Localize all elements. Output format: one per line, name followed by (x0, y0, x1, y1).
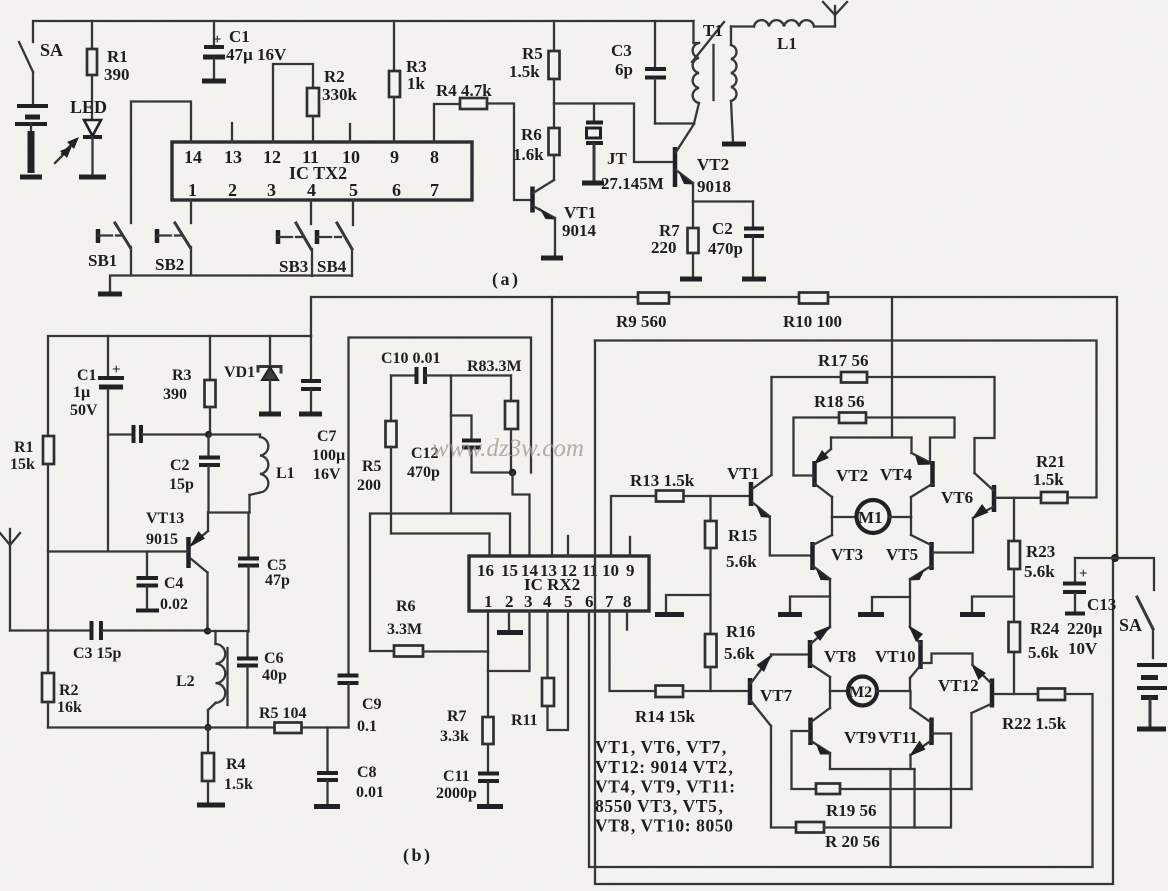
battery GB (b) (1137, 665, 1167, 729)
transistor VT5 (bridge) (886, 517, 932, 627)
resistor R5 200 (357, 376, 397, 534)
wire: R5 bottom to pin 16 (391, 534, 490, 557)
wire: sub rail (b) left (48, 336, 311, 436)
motor M1 (832, 500, 911, 533)
transistor VT2 (bridge) (794, 438, 869, 518)
transistor VT2 9018 (675, 124, 731, 202)
transistor VT9 (bridge) (792, 691, 877, 769)
capacitor coupling (C1 node to tank) (108, 425, 209, 443)
wire: pin 12 stub (567, 536, 569, 556)
wire: motor supply drop (891, 298, 893, 438)
ground: VD1 (259, 412, 281, 417)
resistor R7 220 (651, 202, 699, 278)
resistor R10 100 (783, 293, 842, 332)
resistor R2 16k (42, 631, 82, 728)
transistor VT3 (bridge) (813, 517, 864, 627)
switch SA (a) (19, 40, 63, 105)
resistor R5 1.5k (a) (509, 21, 560, 104)
antenna (a) (823, 2, 847, 27)
pushbutton SB1 (88, 223, 131, 275)
paper noise overlay (0, 0, 1, 1)
wire: VT11 emitter to R20 line (913, 769, 915, 828)
battery GB (a) (15, 106, 48, 173)
wire: emitter tank line (209, 511, 250, 513)
wire: pin 2 ground stub (508, 611, 510, 630)
transistor VT13 9015 (146, 510, 208, 631)
capacitor C10 0.01 (381, 350, 451, 384)
wire: pin 8 stub (626, 611, 628, 630)
capacitor C4 0.02 (136, 552, 188, 614)
wire: pin 6 long line (589, 611, 1093, 867)
ground: pushbutton common (98, 292, 122, 297)
resistor R22 1.5k (1002, 689, 1093, 868)
capacitor C7 100u 16V (301, 336, 345, 483)
inductor L1 (b) (209, 435, 295, 513)
motor M2 (830, 677, 910, 706)
wire: VT2 emitter node line (693, 200, 753, 202)
capacitor C1 47u 16V (a) (203, 21, 287, 78)
resistor R4 1.5k (b) (202, 728, 253, 803)
capacitor C3 6p (611, 21, 666, 124)
wire: pin 1/3 net and R7 top (487, 611, 489, 717)
ground: R7 (680, 277, 702, 282)
wire: pin14 to LED column (131, 102, 191, 224)
text: transistor list (595, 737, 736, 836)
ground: C11 (477, 804, 503, 809)
pushbutton SB3 (278, 200, 312, 276)
node: battery junction (1111, 554, 1119, 562)
wire: collector node to C5/C6 column (208, 630, 249, 632)
resistor R17 56 (772, 351, 995, 473)
resistor R7 3.3k (440, 708, 494, 772)
transistor VT7 (bridge driver) (750, 654, 809, 828)
wire: VT12 base line (994, 693, 1038, 695)
wire: pin 7 to R14 (610, 611, 656, 691)
transistor VT4 (bridge) (880, 438, 933, 518)
ground: VT1 emitter (541, 256, 563, 261)
ground: C1 (a) (202, 79, 226, 84)
ground: crystal (582, 181, 604, 186)
resistor R4 4.7k (434, 81, 531, 200)
wire: C3 bottom to VT2 collector node (655, 122, 694, 124)
wire: net to pin 15 (451, 514, 510, 557)
switch SA (b) (1115, 558, 1154, 658)
resistor R19 56 (792, 731, 972, 820)
IC TX2 (172, 142, 472, 200)
node: tank bottom (204, 724, 211, 731)
capacitor C1 1u 50V (b) (70, 336, 124, 551)
resistor R6 3.3M (370, 598, 488, 657)
antenna (b) (0, 529, 20, 631)
node: tank top (205, 431, 212, 438)
resistor R24 5.6k (1009, 619, 1060, 694)
capacitor C6 40p (237, 631, 287, 728)
inductor L2 (176, 631, 228, 727)
node: VT13 collector (204, 627, 211, 634)
IC RX2 (469, 556, 649, 611)
wire: top supply rail (a) (33, 21, 694, 42)
wire: VT13 base line (48, 550, 188, 552)
transistor VT8 (bridge) (810, 626, 856, 692)
wire: pin13 stub (231, 123, 233, 142)
wire: pin 9 stub (RX2) (629, 537, 631, 556)
transistor VT12 (bridge driver) (922, 654, 992, 790)
resistor R13 1.5k (611, 471, 749, 556)
transistor VT1 (bridge driver) (727, 377, 810, 556)
ground: VT5/VT10 emitters (858, 597, 910, 615)
LED VD (55, 97, 107, 175)
capacitor C12 470p (407, 416, 511, 482)
capacitor C13 220u 10V (1063, 558, 1116, 658)
ground: C7 (299, 412, 322, 417)
pushbutton SB4 (317, 200, 353, 276)
ground: C8 (314, 804, 340, 809)
wire: detector box top (C9 to pin14 net) (350, 338, 531, 473)
ground: battery (a) (20, 175, 42, 180)
transformer T1 (692, 21, 737, 142)
capacitor C3 15p (b) (10, 621, 208, 662)
resistor R18 56 (794, 392, 955, 476)
ground: R15/R16 mid (655, 595, 711, 615)
resistor R20 56 (796, 734, 951, 852)
resistor R14 15k (635, 686, 748, 727)
wire: emitter bus to pin6 line (889, 769, 891, 867)
resistor R3 390 (b) (163, 336, 216, 435)
ground: VT3/VT8 emitters (778, 597, 830, 615)
wire: pushbutton common line (110, 276, 352, 293)
capacitor C2 470p (708, 202, 764, 278)
transistor VT1 9014 (533, 180, 597, 256)
wire: enclosure left/bottom (595, 341, 1113, 885)
resistor R9 560 (616, 293, 669, 332)
resistor R5 104 (259, 705, 349, 733)
resistor R6 1.6k (513, 104, 560, 181)
capacitor C9 0.1 (338, 338, 382, 736)
ground: T1 secondary (722, 142, 746, 147)
wire: R5 bottom junction to VT2 base (554, 104, 674, 163)
ground: R4 (b) (197, 803, 225, 808)
resistor R8 3.3M (451, 358, 522, 473)
wire: node down to pin 14 (513, 473, 530, 557)
inductor L1 (a) (731, 20, 835, 53)
resistor R16 5.6k (705, 622, 755, 691)
wire: pin 11 line to R21 (595, 341, 1097, 496)
wire: C10 right net (to pin15) (370, 376, 451, 652)
capacitor C5 47p (238, 513, 290, 632)
ground: pin 2 (497, 630, 523, 635)
wire: VT6 base line (995, 497, 1041, 499)
wire: rail to pin 13 (551, 297, 553, 556)
resistor R23 5.6k (1009, 498, 1056, 622)
resistor R1 15k (b) (10, 436, 54, 673)
resistor R2 330k (307, 67, 358, 142)
ground: R23/R24 mid (960, 597, 1014, 615)
resistor R21 1.5k (1033, 452, 1097, 503)
resistor R1 390 (87, 21, 130, 118)
pushbutton SB2 (155, 200, 191, 275)
zener diode VD1 (224, 336, 281, 412)
wire: main +V rail (b) (311, 297, 1117, 558)
wire: pin12 bracket to R2 top (273, 64, 313, 142)
capacitor C8 0.01 (317, 728, 384, 805)
resistor R15 5.6k (705, 496, 757, 634)
wire: VT2/VT4 emitter supply line (831, 436, 912, 438)
wire: bottom tank line (48, 726, 275, 728)
wire: pin10 stub (349, 124, 351, 142)
capacitor C2 15p (b) (169, 435, 220, 513)
ground: LED (79, 175, 106, 180)
crystal JT 27.145M (586, 104, 664, 194)
transistor VT11 (bridge) (878, 691, 951, 769)
resistor R3 1k (a) (389, 21, 427, 142)
node: C12/R8/pin14 (509, 469, 517, 477)
transistor VT6 (bridge driver) (933, 473, 994, 553)
capacitor C11 2000p (436, 768, 499, 804)
ground: C2 (742, 277, 766, 282)
transistor VT10 (bridge) (875, 626, 923, 692)
resistor R11 (511, 611, 568, 730)
wire: VT9/VT11 emitter bus (830, 768, 915, 770)
